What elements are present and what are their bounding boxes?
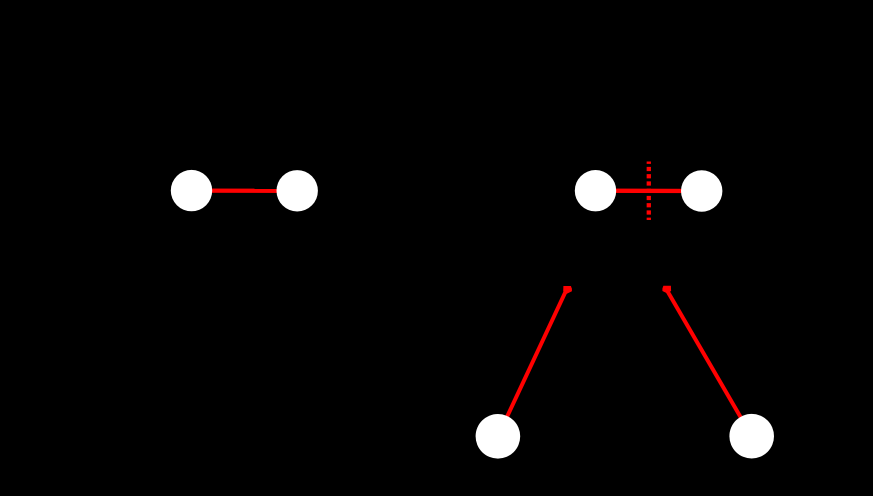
node F [729,414,774,459]
wire edge C-D [596,189,702,194]
node E [476,414,521,459]
wire edge A-B [192,188,298,192]
arrow from node E [498,286,572,436]
dotted cut line [647,162,651,221]
node C [575,170,616,211]
node B [277,170,318,211]
node A [171,170,212,211]
arrow from node F [662,286,751,437]
node D [681,170,722,211]
